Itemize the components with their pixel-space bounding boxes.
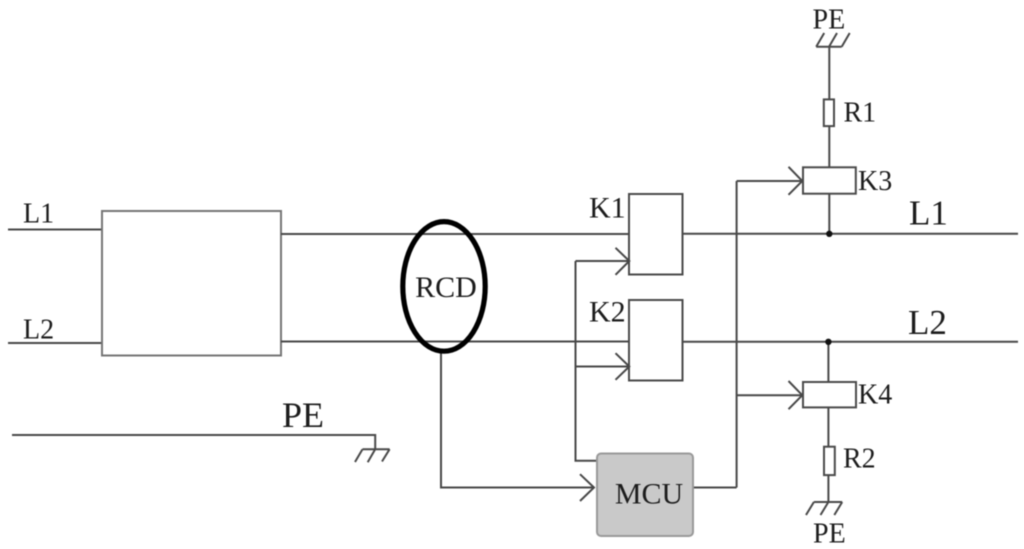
svg-text:MCU: MCU: [615, 478, 684, 511]
svg-text:K1: K1: [589, 192, 626, 225]
input block (power module): [102, 211, 281, 356]
svg-text:K4: K4: [858, 380, 892, 411]
node L2 junction dot: [825, 339, 831, 345]
MCU block: [597, 454, 693, 537]
wire L2 node to K4: [827, 342, 829, 382]
svg-text:PE: PE: [282, 395, 324, 435]
wire PE bus bottom left: [12, 435, 375, 449]
arrowhead into MCU: [580, 474, 594, 501]
wire vertical feed bus: [736, 181, 738, 488]
svg-text:L1: L1: [909, 194, 948, 233]
wire R2 to bottom ground: [827, 475, 829, 502]
wire control bus to MCU top: [576, 261, 598, 461]
resistor R2: [824, 447, 835, 475]
ground symbol bottom right: [806, 502, 842, 515]
svg-text:R1: R1: [844, 98, 877, 129]
arrowhead into K1: [616, 248, 630, 275]
wire K3 control: [737, 180, 802, 182]
arrowhead into K4: [789, 381, 803, 409]
svg-text:K2: K2: [589, 296, 626, 329]
wire L1 input: [8, 229, 102, 231]
svg-text:PE: PE: [813, 519, 846, 549]
relay K2 box: [629, 300, 683, 381]
wire MCU output to feed bus: [693, 487, 737, 489]
svg-text:L2: L2: [23, 315, 54, 346]
wire L2 output: [683, 341, 1019, 343]
wire R1 to K3: [828, 126, 830, 167]
wire K4 control: [737, 394, 802, 396]
wire K3 to L1 node: [828, 194, 830, 234]
svg-text:L2: L2: [908, 303, 947, 342]
ground symbol bottom left: [355, 449, 390, 462]
wire L2 block to K2: [281, 341, 629, 343]
svg-text:RCD: RCD: [415, 271, 477, 304]
wire K1 control: [576, 260, 630, 262]
svg-text:R2: R2: [843, 444, 876, 475]
wire K2 control: [576, 366, 629, 368]
wire top ground to R1: [828, 47, 830, 99]
svg-text:PE: PE: [813, 5, 846, 36]
wire L1 output: [683, 233, 1019, 235]
svg-text:K3: K3: [858, 166, 892, 197]
RCD sensor ellipse: [403, 222, 485, 352]
wire RCD to MCU: [441, 354, 595, 488]
relay contact K3 box: [803, 167, 856, 193]
svg-text:L1: L1: [23, 199, 54, 230]
arrowhead into K2: [616, 353, 630, 380]
resistor R1: [824, 99, 834, 126]
wire L1 block to K1: [281, 233, 629, 235]
relay K1 box: [629, 194, 683, 275]
ground symbol top right: [816, 33, 850, 47]
node L1 junction dot: [826, 231, 832, 237]
wire L2 input: [8, 342, 102, 344]
relay contact K4 box: [803, 382, 856, 407]
wire K4 to R2: [827, 407, 829, 446]
arrowhead into K3: [789, 167, 803, 195]
